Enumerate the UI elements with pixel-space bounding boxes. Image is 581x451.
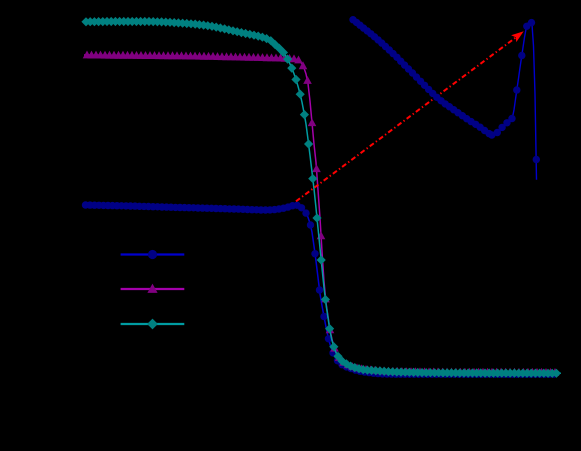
blue circle-marker sigmoid curve (series 1) bbox=[82, 201, 559, 378]
legend entry 2: magenta line with triangle marker bbox=[121, 284, 185, 293]
dark blue derivative curve with peak (upper right) bbox=[349, 16, 540, 180]
magenta triangle-marker sigmoid curve (series 2) bbox=[83, 51, 560, 376]
legend entry 3: teal line with diamond marker bbox=[121, 319, 185, 330]
teal diamond-marker sigmoid curve (series 3) bbox=[81, 17, 561, 378]
legend entry 1: blue line with circle marker bbox=[121, 250, 185, 259]
red dash-dot annotation arrow bbox=[296, 31, 524, 201]
